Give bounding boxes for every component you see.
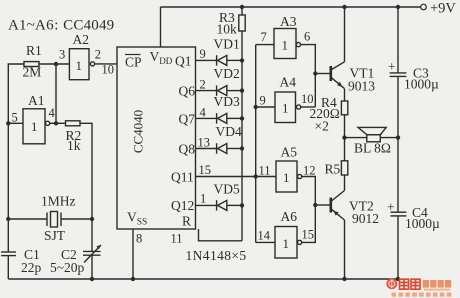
svg-text:Q12: Q12: [171, 198, 194, 213]
svg-text:Q7: Q7: [179, 112, 196, 127]
svg-text:1000µ: 1000µ: [404, 77, 439, 92]
svg-text:1: 1: [283, 236, 290, 251]
svg-text:13: 13: [198, 136, 211, 150]
watermark logo circle: [386, 278, 397, 289]
svg-text:VD1: VD1: [214, 37, 240, 52]
node A1 output junction: [54, 121, 58, 125]
node crystal right: [90, 217, 94, 221]
op-amp A1 inverter: [23, 109, 50, 144]
svg-text:SJT: SJT: [44, 228, 66, 243]
wire R4 to speaker node: [344, 115, 346, 138]
resistor R3: [239, 7, 245, 31]
svg-text:10: 10: [301, 92, 314, 106]
wire R pin 11 to diode bus: [199, 229, 243, 241]
+9V terminal: [421, 4, 427, 10]
wire VT2 base: [315, 204, 330, 206]
speaker BL: [345, 127, 399, 141]
op-amp A5 inverter: [276, 161, 302, 192]
svg-text:15: 15: [199, 163, 212, 177]
watermark weiku text: [400, 279, 421, 289]
svg-text:Q11: Q11: [171, 170, 194, 185]
svg-text:Q1: Q1: [175, 54, 192, 69]
wire +9V top rail: [161, 6, 421, 8]
wire inverter input line: [255, 45, 257, 243]
svg-text:15: 15: [302, 228, 315, 242]
svg-text:VD3: VD3: [214, 94, 240, 109]
wire pin 7 to A3: [256, 44, 274, 46]
svg-text:12: 12: [303, 164, 316, 178]
watermark slogan row: [392, 293, 452, 297]
svg-text:3: 3: [59, 48, 65, 62]
svg-text:1k: 1k: [67, 138, 81, 153]
wire Q11 pin 15 to A5: [196, 176, 277, 178]
svg-text:22p: 22p: [21, 260, 42, 275]
node rail-VT1 collector: [342, 5, 346, 9]
resistor R5: [341, 161, 347, 175]
diode VD2: [217, 85, 242, 95]
svg-text:11: 11: [259, 164, 271, 178]
wire Q8 pin 13: [196, 148, 217, 150]
wire VT1 base: [315, 73, 330, 75]
svg-text:14: 14: [258, 229, 271, 243]
watermark market text: [423, 280, 451, 291]
capacitor C3: [390, 7, 407, 138]
node speaker right: [396, 135, 400, 139]
svg-text:R: R: [182, 214, 191, 229]
resistor R1: [24, 62, 39, 67]
wire R5 to VT2 collector: [344, 175, 346, 191]
svg-text:R1: R1: [26, 43, 42, 58]
node bus VD3: [240, 116, 244, 120]
svg-text:5~20p: 5~20p: [50, 260, 85, 275]
crystal SJT 1MHz: [8, 212, 92, 228]
svg-text:+9V: +9V: [430, 1, 456, 17]
svg-text:1: 1: [282, 38, 289, 53]
node bus VD1: [240, 58, 244, 62]
node A3-A4 outputs: [313, 71, 317, 75]
svg-text:4: 4: [49, 106, 56, 120]
svg-text:BL 8Ω: BL 8Ω: [354, 141, 391, 156]
capacitor C4: [391, 138, 407, 279]
wire A4 output: [301, 106, 316, 108]
wire A1 input: [8, 122, 23, 124]
svg-text:A5: A5: [281, 145, 298, 160]
svg-text:8: 8: [136, 232, 142, 246]
diode VD1: [217, 55, 242, 65]
wire Q6 pin 2: [196, 90, 217, 92]
svg-text:9013: 9013: [348, 79, 375, 94]
svg-text:4: 4: [200, 106, 207, 120]
svg-text:A3: A3: [280, 14, 297, 29]
svg-text:VD5: VD5: [214, 182, 240, 197]
svg-text:A1~A6:CC4049: A1~A6:CC4049: [8, 18, 114, 34]
svg-text:1: 1: [283, 170, 290, 185]
svg-text:VD2: VD2: [214, 66, 240, 81]
op-amp A6 inverter: [275, 227, 302, 259]
node bus VD5: [240, 203, 244, 207]
svg-text:CC4040: CC4040: [131, 110, 146, 153]
node crystal left: [6, 217, 10, 221]
node rail-VT2 emitter: [342, 277, 346, 281]
svg-text:1MHz: 1MHz: [41, 194, 76, 209]
svg-text:A4: A4: [280, 75, 297, 90]
wire A1 out to R2: [50, 122, 66, 124]
op-amp A3 inverter: [274, 29, 301, 59]
node rail-pin8: [131, 277, 135, 281]
svg-text:1: 1: [200, 192, 206, 206]
svg-text:1000µ: 1000µ: [405, 216, 440, 231]
wire Q1 pin 9: [196, 59, 217, 61]
wire junction down to A1 output: [55, 64, 57, 123]
svg-text:6: 6: [304, 30, 310, 44]
op-amp A2 inverter: [69, 49, 94, 80]
wire R1 to A2: [39, 63, 69, 65]
wire pin 9 to A4: [256, 106, 275, 108]
wire A3 output to base node: [301, 45, 316, 107]
wire left rail upper: [8, 64, 24, 252]
node R1-A2-A1 junction: [54, 62, 58, 66]
wire ground bottom rail: [8, 278, 398, 280]
svg-text:A6: A6: [281, 209, 298, 224]
svg-text:11: 11: [171, 232, 183, 246]
wire Q12 pin 1: [196, 204, 217, 206]
svg-text:10k: 10k: [217, 22, 238, 37]
node rail-C2: [90, 277, 94, 281]
wire A2 output to CP: [95, 63, 117, 65]
svg-text:1N4148×5: 1N4148×5: [186, 248, 247, 263]
node rail-R3: [240, 5, 244, 9]
node A5-A6 outputs: [313, 203, 317, 207]
svg-text:VD4: VD4: [216, 124, 242, 139]
svg-text:7: 7: [261, 30, 267, 44]
svg-text:9: 9: [260, 94, 266, 108]
transistor Q1 VT1 9013: [331, 7, 345, 101]
svg-text:A2: A2: [73, 32, 90, 47]
svg-text:1: 1: [31, 119, 38, 134]
svg-text:CP: CP: [125, 55, 142, 70]
capacitor C2 variable: [83, 219, 101, 279]
svg-text:R5: R5: [325, 162, 341, 177]
svg-text:2: 2: [95, 48, 101, 62]
op-amp A4 inverter: [275, 92, 301, 123]
wire Q7 pin 4: [196, 117, 217, 119]
transistor Q2 VT2 9012: [331, 191, 345, 280]
svg-text:VDD: VDD: [150, 49, 173, 66]
svg-text:VSS: VSS: [127, 210, 147, 228]
wire diode bus: [241, 31, 243, 241]
resistor R4: [341, 101, 347, 115]
node input line A4: [254, 105, 258, 109]
svg-text:Q6: Q6: [179, 84, 196, 99]
svg-text:10: 10: [102, 63, 115, 77]
node Q11-input line: [254, 174, 258, 178]
svg-text:9: 9: [200, 47, 206, 61]
svg-text:2M: 2M: [23, 65, 42, 80]
node bus VD2: [240, 88, 244, 92]
wire VSS pin 8: [132, 229, 134, 279]
node speaker left: [342, 135, 346, 139]
wire A6 output to base node: [302, 205, 316, 242]
wire A5 output to base node: [302, 177, 316, 206]
resistor R2: [66, 121, 81, 126]
wire left rail lower: [7, 256, 9, 279]
node rail-C3: [396, 5, 400, 9]
diode VD3: [217, 113, 242, 123]
node left rail A1: [6, 121, 10, 125]
wire VDD riser: [160, 7, 162, 47]
svg-text:5: 5: [12, 111, 18, 125]
wire node to R5: [344, 138, 346, 161]
svg-text:Q8: Q8: [179, 142, 196, 157]
svg-text:2: 2: [200, 78, 206, 92]
svg-text:×2: ×2: [315, 119, 329, 134]
svg-text:+: +: [388, 59, 396, 74]
wire R2 to C2 branch: [80, 123, 92, 219]
svg-text:+: +: [387, 200, 395, 215]
wire pin 14 to A6: [256, 241, 275, 243]
node rail-C4: [396, 277, 400, 281]
IC U1 CC4040 box: [117, 47, 196, 229]
capacitor C1: [1, 252, 16, 256]
diode VD5: [217, 200, 242, 210]
node bus VD4: [240, 146, 244, 150]
label CP: [125, 55, 142, 70]
svg-text:1: 1: [76, 58, 83, 73]
svg-text:9012: 9012: [352, 211, 379, 226]
svg-text:1: 1: [282, 101, 289, 116]
diode VD4: [217, 143, 242, 153]
svg-text:A1: A1: [28, 93, 45, 108]
